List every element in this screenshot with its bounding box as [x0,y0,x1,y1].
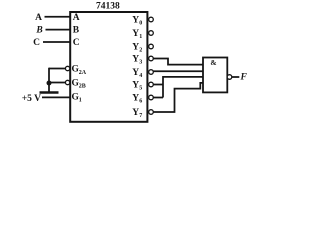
svg-text:6: 6 [139,99,142,105]
IC U1 74138 body [70,12,147,122]
pin Y5 label [132,81,142,92]
bubble gate output [227,75,232,80]
svg-text:Y: Y [132,81,139,91]
svg-text:Y: Y [132,108,139,118]
pin G2B label [72,78,86,89]
pin Y1 label [132,29,142,40]
bubble pin G2A (active low) [65,66,69,70]
pin Y4 label [132,68,142,79]
svg-text:Y: Y [132,16,139,26]
ground [40,91,59,93]
pin G2A label [72,65,87,76]
wire Y7 to gate input 4 [153,83,203,112]
svg-text:4: 4 [139,73,142,79]
svg-text:C: C [33,38,40,48]
wire Y5 to vertical bus [153,84,163,86]
svg-text:A: A [73,13,80,23]
svg-text:74138: 74138 [96,2,120,12]
pin Y3 label [132,55,142,66]
svg-text:1: 1 [139,34,142,40]
bubble output Y5 [149,82,154,87]
wire G2A [49,68,65,70]
nand gate U2 (IEC & symbol) [203,58,227,93]
bubble output Y4 [149,70,154,75]
bubble output Y0 [149,17,154,22]
pin Y0 label [132,16,142,27]
pin Y2 label [132,43,142,54]
wire enable vertical to ground [48,68,50,92]
svg-text:7: 7 [139,113,142,119]
wire G2B [49,82,65,84]
pin Y6 label [132,94,142,105]
svg-text:Y: Y [132,29,139,39]
svg-text:Y: Y [132,68,139,78]
svg-text:5: 5 [139,86,142,92]
bubble output Y3 [149,56,154,61]
wire B to pin B [46,29,71,31]
bubble output Y7 [149,110,154,115]
svg-text:3: 3 [139,60,142,66]
svg-text:&: & [210,58,216,67]
svg-text:2: 2 [139,48,142,54]
svg-text:B: B [35,26,42,36]
wire +5V to pin G1 [42,96,70,98]
svg-text:2A: 2A [79,70,87,76]
pin Y7 label [132,108,142,119]
wire Y6 to vertical bus [153,97,163,99]
svg-text:B: B [73,26,80,36]
svg-text:+5 V: +5 V [22,94,41,104]
svg-text:Y: Y [132,43,139,53]
junction dot G2A/G2B [47,81,52,86]
wire C to pin C [43,41,70,43]
svg-text:C: C [73,38,80,48]
svg-text:Y: Y [132,94,139,104]
bubble output Y6 [149,95,154,100]
bubble output Y1 [149,31,154,36]
wire Y3 to gate input 1 [153,59,203,65]
svg-text:A: A [35,13,42,23]
wire gate output to F [232,76,240,78]
svg-text:2B: 2B [79,84,86,90]
wire vertical bus to gate input 3 [163,77,203,98]
svg-text:Y: Y [132,55,139,65]
wire A to pin A [45,16,71,18]
svg-text:F: F [240,72,248,82]
wire Y4 to gate input 2 [153,70,203,72]
bubble pin G2B (active low) [65,80,69,84]
svg-text:1: 1 [79,98,82,104]
bubble output Y2 [149,44,154,49]
svg-text:0: 0 [139,21,142,27]
pin G1 label [72,93,82,104]
